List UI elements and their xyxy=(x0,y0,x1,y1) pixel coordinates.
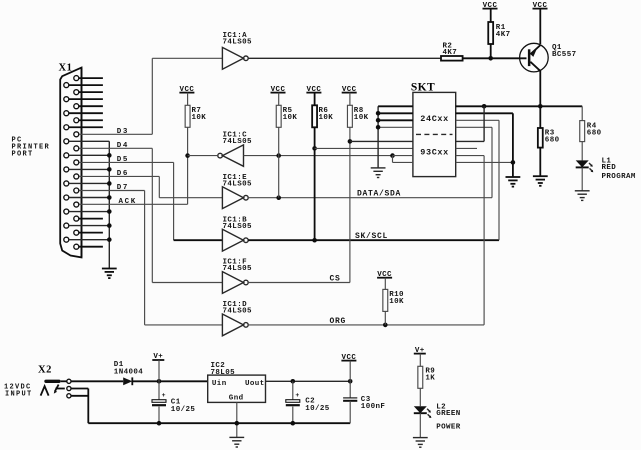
resistor R2 4K7 (horizontal) xyxy=(441,42,463,60)
ground below R3 xyxy=(533,176,548,186)
transistor Q1 BC557 (PNP) xyxy=(520,43,549,72)
wire X2 plus to D1 xyxy=(71,380,123,382)
svg-text:Uout: Uout xyxy=(245,380,265,388)
connector X1 pin circles and stub leads xyxy=(64,76,110,250)
ground SKT right xyxy=(506,177,521,187)
power VCC above R8 xyxy=(342,86,357,106)
wire DATA/SDA net xyxy=(248,127,492,200)
inverter IC1:B 74LS05 xyxy=(222,216,252,251)
svg-text:4K7: 4K7 xyxy=(496,31,511,39)
wire SKT 24Cxx WP+93Cxx GND to ground xyxy=(456,113,516,177)
ground SKT left xyxy=(371,168,386,178)
label 93Cxx xyxy=(420,147,449,157)
svg-text:74LS05: 74LS05 xyxy=(223,180,253,188)
wire X2 return to ground rail xyxy=(71,389,88,424)
svg-text:SK/SCL: SK/SCL xyxy=(355,232,388,241)
inverter IC1:E 74LS05 xyxy=(222,174,252,209)
wire IC1:C output (to ACK) xyxy=(188,155,218,157)
wire SKT 24Cxx address pins to ground bus xyxy=(376,106,413,168)
svg-text:10/25: 10/25 xyxy=(171,406,196,414)
wire D3 (X1 pin5 to IC1:A input) xyxy=(79,58,222,134)
resistor R9 1K xyxy=(418,366,435,406)
regulator IC2 78L05 xyxy=(208,362,266,402)
svg-text:10K: 10K xyxy=(354,114,369,122)
wire SKT SCL pin to SK/SCL net xyxy=(456,119,499,121)
svg-text:680: 680 xyxy=(587,129,602,137)
svg-text:680: 680 xyxy=(545,137,560,145)
label DATA/SDA xyxy=(357,190,401,199)
svg-text:74LS05: 74LS05 xyxy=(223,223,253,231)
power V+ at D1 cathode xyxy=(152,353,164,381)
op... inverter IC1:A 74LS05 xyxy=(222,32,252,69)
svg-text:93Cxx: 93Cxx xyxy=(420,147,449,157)
svg-text:D7: D7 xyxy=(117,184,129,192)
svg-text:D3: D3 xyxy=(117,128,129,136)
label PC PRINTER PORT xyxy=(12,137,51,159)
svg-text:D4: D4 xyxy=(117,142,129,150)
svg-text:Uin: Uin xyxy=(212,380,227,388)
LED L1 RED PROGRAM xyxy=(576,157,636,190)
svg-text:10K: 10K xyxy=(319,114,334,122)
wire Q1 collector down to switched rail xyxy=(539,70,541,106)
svg-text:+: + xyxy=(295,392,299,399)
wire switched VCC rail (Q1 collector to SKT pin, R3, R4) xyxy=(456,104,583,109)
power VCC above Q1 emitter xyxy=(533,2,548,44)
power VCC above R6 xyxy=(306,86,321,106)
wire IC1:A output to R2 xyxy=(248,57,441,59)
svg-text:ORG: ORG xyxy=(330,317,347,326)
svg-text:1K: 1K xyxy=(425,374,435,382)
wire ORG net xyxy=(248,156,484,328)
svg-text:PROGRAM: PROGRAM xyxy=(602,173,636,181)
svg-text:24Cxx: 24Cxx xyxy=(420,114,449,124)
wire SKT 93Cxx VCC pin to switched rail xyxy=(456,106,484,141)
ground below L1 xyxy=(575,191,590,201)
wire SKT SDA pin to DATA/SDA net xyxy=(456,126,492,128)
power VCC above R5 xyxy=(271,86,286,106)
wire ACK (X1 pin10 to IC1:C output) xyxy=(79,153,190,204)
inverter IC1:D 74LS05 xyxy=(222,301,252,336)
label D5 xyxy=(117,156,129,164)
wire D4 (X1 pin6 to IC1:F input) xyxy=(79,148,222,282)
capacitor C1 10/25 xyxy=(152,381,195,425)
inverter IC1:C 74LS05 (readback, points left) xyxy=(218,132,252,167)
wire SKT 93Cxx DI/DO tie (node DATA) xyxy=(393,156,413,163)
wire R2 to Q1 base xyxy=(463,57,527,59)
resistor R3 680 xyxy=(538,106,560,176)
LED L2 GREEN POWER xyxy=(414,403,461,437)
svg-text:10/25: 10/25 xyxy=(305,405,330,413)
label D7 xyxy=(117,184,129,192)
power VCC at regulator output xyxy=(341,354,356,382)
wire IC2 Gnd pin to ground xyxy=(235,402,240,437)
svg-text:BC557: BC557 xyxy=(552,51,577,59)
svg-text:74LS05: 74LS05 xyxy=(223,265,253,273)
svg-text:Gnd: Gnd xyxy=(229,394,244,402)
connector X1 (DB25 PC printer port) xyxy=(60,68,81,258)
power VCC above R1 xyxy=(483,2,498,22)
power VCC above R7 xyxy=(179,86,194,106)
resistor R6 10K (SK pull-up) xyxy=(312,105,333,240)
label D3 xyxy=(117,128,129,136)
svg-text:X2: X2 xyxy=(38,364,52,375)
wire IC2 Uout to VCC node xyxy=(266,379,353,384)
svg-text:PORT: PORT xyxy=(12,151,34,159)
wire D6 (X1 pin8 to IC1:E input) xyxy=(79,176,222,197)
ground below L2 xyxy=(413,438,428,448)
label 12VDC INPUT xyxy=(4,384,33,399)
wire IC1:C input / DATA sense line xyxy=(244,153,395,158)
label Q1 BC557 xyxy=(552,44,577,59)
label D4 xyxy=(117,142,129,150)
socket SKT box xyxy=(411,82,456,177)
wire D7 (X1 pin9 to IC1:D input) xyxy=(79,191,222,325)
ground X1 xyxy=(102,269,117,279)
label CS xyxy=(330,274,341,283)
wire D5 (X1 pin7 to IC1:B input) xyxy=(79,162,222,240)
svg-text:DATA/SDA: DATA/SDA xyxy=(357,190,401,199)
resistor R7 10K (ACK pull-up) xyxy=(185,105,206,153)
wire D1 cathode to IC2 Uin xyxy=(132,379,207,384)
connector X2 12VDC input jack xyxy=(41,379,71,398)
wire R8 to SKT 93Cxx CS pin xyxy=(350,140,413,142)
wire SKT 93Cxx ORG pin down to ORG net xyxy=(456,155,484,157)
svg-text:10K: 10K xyxy=(192,114,207,122)
svg-text:+: + xyxy=(162,392,166,399)
wire CS net xyxy=(248,282,350,284)
capacitor C3 100nF xyxy=(343,381,385,423)
svg-text:74LS05: 74LS05 xyxy=(223,138,253,146)
svg-text:GREEN: GREEN xyxy=(436,410,461,418)
wire SK/SCL net xyxy=(248,120,499,242)
power V+ above R9 xyxy=(414,347,426,367)
svg-text:SKT: SKT xyxy=(411,82,435,94)
wire R6 to SKT 93Cxx SK pin xyxy=(315,147,413,149)
ground below IC2 xyxy=(229,437,244,447)
svg-text:10K: 10K xyxy=(389,298,404,306)
label X1 xyxy=(59,63,73,74)
svg-text:4K7: 4K7 xyxy=(443,49,458,57)
svg-text:ACK: ACK xyxy=(119,198,137,206)
resistor R10 10K (ORG pull-up) xyxy=(383,289,404,325)
wire SKT 93Cxx NC stub xyxy=(456,147,477,149)
label ACK xyxy=(119,198,137,206)
resistor R5 10K (DATA pull-up) xyxy=(276,105,297,197)
resistor R8 10K (CS pull-up) xyxy=(347,105,368,282)
svg-text:74LS05: 74LS05 xyxy=(223,38,253,46)
power VCC above R10 xyxy=(377,271,392,290)
label X2 xyxy=(38,364,52,375)
resistor R4 680 xyxy=(580,106,602,160)
svg-text:78L05: 78L05 xyxy=(211,369,236,377)
svg-text:D6: D6 xyxy=(117,170,129,178)
svg-text:1N4004: 1N4004 xyxy=(114,368,144,376)
svg-text:INPUT: INPUT xyxy=(5,391,33,399)
diode D1 1N4004 xyxy=(114,361,144,385)
label ORG xyxy=(330,317,347,326)
svg-text:74LS05: 74LS05 xyxy=(223,308,253,316)
svg-text:RED: RED xyxy=(602,164,617,172)
resistor R1 4K7 xyxy=(488,22,510,61)
svg-text:10K: 10K xyxy=(283,114,298,122)
svg-text:CS: CS xyxy=(330,274,341,283)
inverter IC1:F 74LS05 xyxy=(222,259,252,294)
wire ground rail of supply xyxy=(88,422,350,424)
svg-text:POWER: POWER xyxy=(436,423,461,431)
label SK/SCL xyxy=(355,232,388,241)
label D6 xyxy=(117,170,129,178)
capacitor C2 10/25 xyxy=(286,381,330,425)
wire X1 ground bus (pins 18-25) xyxy=(107,141,112,268)
svg-text:100nF: 100nF xyxy=(361,403,386,411)
svg-text:X1: X1 xyxy=(59,63,73,74)
label 24Cxx xyxy=(420,114,449,124)
svg-text:D5: D5 xyxy=(117,156,129,164)
divider dashed line in SKT xyxy=(416,133,453,135)
